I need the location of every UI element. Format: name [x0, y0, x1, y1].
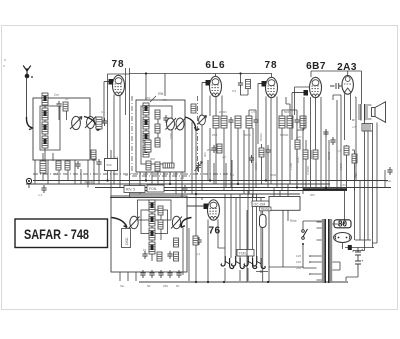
- resistor R12: [246, 116, 252, 128]
- wire: [368, 105, 372, 119]
- resistor R4: [146, 161, 151, 170]
- wire: [119, 96, 121, 188]
- bus AVC line: [95, 187, 391, 189]
- resistor R16: [300, 116, 306, 128]
- svg-text:o,1: o,1: [38, 193, 43, 197]
- band switch wiper S1d: [112, 218, 128, 228]
- tuning capacitor CV3: [166, 118, 177, 130]
- svg-text:0,5: 0,5: [232, 89, 237, 93]
- svg-text:5000: 5000: [284, 110, 291, 114]
- svg-text:5000: 5000: [270, 173, 277, 177]
- resistor R23: [193, 236, 198, 245]
- capacitor C1: [56, 101, 61, 109]
- resistor R18: [303, 150, 308, 159]
- coupling capacitor C29: [330, 83, 342, 89]
- switch contact S2c: [244, 256, 257, 269]
- wire: [306, 140, 311, 159]
- wire: [329, 95, 341, 188]
- inner box antenna tuner: [40, 106, 60, 150]
- wire: [108, 73, 130, 75]
- antenna terminal: [23, 66, 33, 79]
- svg-text:500: 500: [107, 163, 112, 167]
- band switch wiper S1a: [26, 117, 32, 130]
- switch contact S2b: [232, 256, 245, 269]
- coil L13: [155, 124, 160, 133]
- wire: [347, 120, 355, 191]
- wire: [94, 150, 111, 198]
- tube V7 (80 rectifier): [334, 233, 352, 243]
- filter capacitor C20: [355, 258, 364, 269]
- svg-text:2000: 2000: [296, 156, 300, 163]
- wire: [225, 191, 261, 259]
- capacitor C24: [182, 185, 187, 193]
- bus ground line: [26, 183, 330, 185]
- resistor R26: [259, 148, 264, 157]
- wire: [343, 242, 375, 249]
- label box (tone): [237, 250, 254, 257]
- coil L1: [42, 93, 48, 105]
- coil L11: [143, 145, 149, 157]
- bus heavy segment: [303, 188, 347, 190]
- svg-text:6B7: 6B7: [306, 61, 326, 72]
- capacitor C12: [142, 251, 147, 259]
- svg-text:250: 250: [207, 148, 212, 152]
- tube V5 (2A3): [342, 75, 353, 94]
- wire: [297, 97, 304, 136]
- wire: [208, 160, 232, 191]
- wire: [332, 222, 344, 224]
- svg-text:o,1: o,1: [114, 155, 118, 159]
- wire: [364, 121, 366, 124]
- svg-text:50000: 50000: [259, 133, 263, 141]
- wire: [348, 71, 362, 104]
- wire: [130, 73, 273, 75]
- svg-text:o,1: o,1: [230, 173, 234, 177]
- svg-text:20: 20: [125, 173, 129, 177]
- coil L18: [149, 214, 155, 226]
- wire: [225, 268, 268, 281]
- loudspeaker LS: [372, 102, 386, 123]
- junction dots: [106, 179, 327, 195]
- svg-text:50000: 50000: [280, 133, 289, 137]
- svg-text:Rete: Rete: [290, 219, 297, 223]
- capacitor C22: [96, 159, 101, 167]
- wire: [241, 88, 249, 95]
- junction dot: [145, 72, 147, 74]
- svg-text:SAFAR - 748: SAFAR - 748: [24, 227, 89, 242]
- svg-text:o,5: o,5: [251, 110, 255, 114]
- switch contact S2d: [253, 256, 266, 269]
- svg-text:6,3 V.: 6,3 V.: [85, 180, 94, 184]
- coil L4: [42, 136, 48, 148]
- wire: [244, 128, 253, 198]
- power transformer T3: [317, 219, 333, 283]
- ground terminal: [26, 178, 31, 188]
- wire: [240, 74, 242, 81]
- speck: [3, 59, 5, 67]
- wire: [355, 239, 371, 241]
- wire: [303, 221, 322, 268]
- capacitor C18: [196, 237, 201, 245]
- wire: [355, 97, 356, 181]
- inner box osc 2: [141, 210, 168, 234]
- svg-text:o,5: o,5: [180, 176, 185, 180]
- label box osc: [122, 229, 131, 248]
- wire: [95, 82, 104, 124]
- wire: [146, 115, 158, 145]
- capacitor C8: [211, 145, 216, 153]
- svg-text:2,5V: 2,5V: [340, 183, 346, 187]
- resistor R27: [63, 102, 68, 111]
- coil L19: [149, 228, 155, 240]
- wire: [45, 105, 67, 161]
- grid cap V4: [292, 90, 308, 96]
- wire: [129, 68, 131, 198]
- svg-text:160: 160: [296, 260, 301, 264]
- resistor R5: [155, 162, 160, 171]
- svg-text:OC-OM: OC-OM: [254, 202, 266, 206]
- mains switch S3: [302, 229, 308, 245]
- coil L3: [42, 122, 48, 134]
- svg-text:5000: 5000: [244, 133, 251, 137]
- resistor R9: [213, 116, 219, 128]
- wire: [257, 84, 259, 145]
- wire: [125, 68, 127, 115]
- Rif. pointer: [150, 91, 164, 102]
- capacitor C23: [41, 185, 46, 193]
- coil L9: [143, 117, 149, 129]
- coil L23: [174, 238, 179, 247]
- wire: [271, 74, 273, 78]
- resistor R21: [352, 154, 357, 163]
- label box terminal strip 2: [147, 185, 164, 192]
- tube V4 (6B7): [310, 77, 322, 97]
- wire: [145, 74, 147, 101]
- wire: [311, 97, 322, 188]
- wire: [152, 212, 161, 261]
- wire: [208, 220, 225, 282]
- field coil L16: [362, 124, 373, 132]
- wire: [262, 144, 269, 188]
- resistor R24: [91, 150, 96, 159]
- tuning capacitor CV1: [70, 116, 82, 129]
- wire: [346, 269, 358, 281]
- wire: [291, 93, 293, 141]
- band switch wiper S1e: [180, 218, 191, 228]
- svg-text:10000: 10000: [254, 162, 258, 170]
- svg-text:300: 300: [150, 157, 155, 161]
- capacitor C27: [167, 251, 172, 259]
- capacitor C2: [75, 161, 80, 169]
- wire: [347, 71, 349, 75]
- capacitor C7: [253, 117, 258, 125]
- tube V3 (78): [266, 77, 278, 97]
- shield boundary vertical (dash-dot): [197, 96, 199, 174]
- resistor R20: [344, 146, 349, 155]
- capacitor C25: [265, 147, 270, 155]
- capacitor C3: [102, 118, 107, 126]
- capacitor C16: [176, 270, 181, 278]
- capacitor C5: [238, 80, 243, 88]
- wire: [266, 97, 277, 188]
- wire: [26, 77, 28, 117]
- resistor R14: [279, 116, 285, 128]
- resistor R13: [217, 144, 222, 153]
- svg-text:20000: 20000: [219, 110, 227, 114]
- wire: [274, 184, 288, 197]
- capacitor C15: [167, 270, 172, 278]
- resistor R2: [65, 161, 70, 170]
- wire: [332, 262, 340, 270]
- svg-text:0,1: 0,1: [101, 110, 106, 114]
- capacitor C17: [140, 270, 145, 278]
- capacitor C30: [249, 155, 254, 163]
- coil L17: [149, 200, 155, 212]
- svg-text:20: 20: [65, 97, 69, 101]
- svg-text:AVC: AVC: [296, 135, 302, 139]
- coil L12: [155, 110, 160, 119]
- label box small: [260, 207, 272, 211]
- capacitor C9: [294, 117, 299, 125]
- wire: [215, 74, 217, 77]
- svg-text:0,1: 0,1: [196, 252, 201, 256]
- svg-text:o,1: o,1: [222, 155, 226, 159]
- inner box T1: [141, 106, 172, 164]
- resistor R28 (pill): [260, 215, 267, 228]
- svg-text:76: 76: [208, 226, 220, 237]
- band switch wiper S1c: [185, 117, 199, 131]
- svg-text:TRASF: TRASF: [261, 207, 270, 211]
- wire: [140, 172, 182, 198]
- capacitor C14: [158, 270, 163, 278]
- svg-text:FON.: FON.: [239, 252, 247, 256]
- IF transformer T1 box: [136, 100, 185, 172]
- svg-text:RIV. 5: RIV. 5: [126, 188, 135, 192]
- capacitor C13: [149, 270, 154, 278]
- resistor R1: [56, 161, 61, 170]
- svg-text:250: 250: [212, 133, 217, 137]
- boxed component (resistor pack): [105, 159, 118, 171]
- resistor R17: [295, 140, 300, 149]
- grid cap V6: [187, 204, 208, 210]
- tube V2 (6L6): [210, 76, 222, 96]
- svg-text:50: 50: [176, 284, 180, 288]
- tuning capacitor CV5: [129, 216, 140, 228]
- jack box: [269, 197, 300, 211]
- wire: [345, 181, 361, 241]
- svg-text:1 MΩ: 1 MΩ: [289, 162, 293, 170]
- shield boundary (dash-dot): [33, 173, 232, 175]
- tuning capacitor CV6: [171, 216, 182, 228]
- junction dots bottom: [195, 281, 269, 283]
- wire: [164, 74, 166, 97]
- svg-text:FON.: FON.: [149, 187, 157, 191]
- tube V6 (76): [208, 200, 220, 220]
- wire: [282, 104, 303, 194]
- wire: [247, 210, 303, 282]
- capacitor C10: [323, 129, 328, 137]
- svg-text:220: 220: [296, 266, 301, 270]
- coil L8: [143, 103, 149, 115]
- resistor R15: [287, 116, 293, 128]
- capacitor C4: [163, 115, 168, 123]
- tuning capacitor CV2: [85, 117, 96, 129]
- wire: [120, 228, 189, 281]
- coil L24: [174, 252, 179, 261]
- wire: [209, 96, 211, 117]
- wire: [311, 70, 348, 72]
- wire: [113, 95, 115, 185]
- svg-text:Tar.: Tar.: [120, 284, 125, 288]
- capacitor C21: [91, 155, 96, 163]
- coil L20: [149, 242, 155, 254]
- wire: [107, 74, 109, 181]
- wire: [384, 170, 386, 188]
- svg-text:o,5: o,5: [352, 125, 356, 129]
- bus heater line: [130, 190, 347, 192]
- wire: [221, 96, 223, 117]
- tube label 80: [334, 220, 351, 229]
- wire: [297, 129, 326, 188]
- wire: [201, 83, 203, 116]
- svg-text:1500: 1500: [339, 163, 343, 170]
- svg-text:0,5MΩ: 0,5MΩ: [306, 165, 310, 175]
- resistor R8: [246, 80, 251, 89]
- coil L10: [143, 131, 149, 143]
- svg-text:Fon.: Fon.: [386, 179, 392, 183]
- grid cap V2: [202, 80, 210, 86]
- capacitor C6: [228, 117, 233, 125]
- trimmer capacitor CT1: [195, 162, 203, 173]
- tuning capacitor CV4: [198, 115, 207, 125]
- output transformer T2: [358, 104, 368, 121]
- svg-text:Cm: Cm: [54, 93, 59, 97]
- junction dot: [239, 72, 241, 74]
- svg-text:300: 300: [310, 193, 315, 197]
- wire: [310, 71, 312, 77]
- grid cap V3: [258, 81, 266, 87]
- coil L7: [40, 161, 46, 173]
- svg-text:78: 78: [264, 60, 277, 71]
- shield outline (dash-dot): [132, 96, 190, 176]
- wire: [192, 122, 202, 281]
- coil L2: [42, 108, 48, 120]
- svg-text:470: 470: [162, 98, 167, 102]
- coil L14: [155, 138, 160, 147]
- wire: [353, 251, 365, 253]
- resistor R6: [163, 163, 174, 168]
- wire: [210, 125, 238, 191]
- svg-text:50: 50: [147, 284, 151, 288]
- capacitor C11: [330, 137, 335, 145]
- coil L15: [145, 140, 151, 152]
- coil L21: [158, 206, 163, 215]
- inner box osc 1: [138, 200, 172, 220]
- resistor R19: [313, 150, 318, 159]
- shield box L1/L2 antenna transformer: [33, 98, 90, 160]
- bus line 5: [130, 193, 300, 195]
- wire: [286, 97, 290, 104]
- svg-text:Rif.: Rif.: [158, 91, 164, 96]
- coil L22: [158, 220, 163, 229]
- svg-text:o,5: o,5: [180, 195, 185, 199]
- svg-text:125: 125: [296, 254, 301, 258]
- svg-text:6L6: 6L6: [205, 60, 225, 71]
- svg-text:OSC.: OSC.: [125, 237, 129, 245]
- switch contact S2a: [221, 256, 234, 269]
- svg-text:o,5: o,5: [337, 149, 341, 153]
- oscillator shield box: [111, 196, 187, 272]
- capacitor C28: [387, 167, 392, 175]
- title box SAFAR-748: [15, 219, 108, 248]
- svg-text:15: 15: [143, 248, 147, 252]
- wire: [337, 94, 351, 191]
- bottom ground bus: [139, 281, 348, 283]
- resistor R22: [157, 252, 162, 261]
- bus B+ line: [33, 180, 388, 182]
- wire: [35, 153, 88, 188]
- band switch wiper S1b: [84, 117, 101, 131]
- svg-text:1500: 1500: [169, 132, 173, 139]
- wire: [365, 123, 378, 251]
- resistor R7: [191, 104, 196, 113]
- svg-text:300: 300: [203, 152, 207, 157]
- wire: [295, 87, 310, 115]
- wire: [249, 110, 256, 194]
- svg-text:250: 250: [163, 284, 168, 288]
- label box terminal strip: [124, 186, 145, 193]
- wire: [201, 198, 203, 201]
- filter capacitor C19: [355, 247, 364, 259]
- grid cap V1: [104, 79, 113, 85]
- resistor R11: [235, 116, 241, 128]
- capacitor C26 (blob): [348, 245, 352, 250]
- resistor R3: [96, 117, 102, 129]
- bus line 6: [110, 197, 265, 199]
- wire: [215, 97, 217, 116]
- voltage tap ticks: [309, 255, 316, 275]
- resistor R10: [221, 116, 227, 128]
- svg-text:78: 78: [111, 59, 124, 70]
- tube V1 (78): [113, 75, 125, 95]
- tuning capacitor CV3b: [175, 118, 186, 130]
- label box (band indicator): [252, 201, 269, 207]
